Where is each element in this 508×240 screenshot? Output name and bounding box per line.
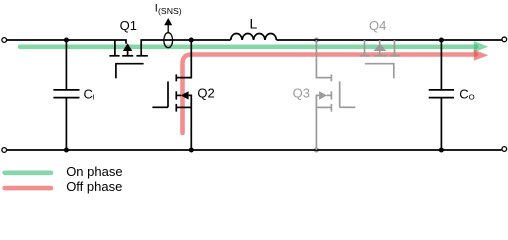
body diode of Q4 — [374, 43, 386, 51]
capacitor CO lead from output rail — [440, 40, 442, 89]
node GND3 junction (gray, bottom of Q3 branch) — [314, 148, 319, 153]
svg-text:C: C — [459, 86, 468, 101]
transistor Q3 (gray, unused in buck mode) — [316, 40, 355, 150]
wire: CI to ground — [65, 99, 67, 151]
wire: CO to ground — [440, 99, 442, 151]
node VOUT junction — [439, 38, 444, 43]
input ground terminal — [2, 148, 7, 153]
svg-text:On phase: On phase — [66, 164, 122, 179]
svg-text:L: L — [250, 15, 258, 31]
node VIN-CI junction — [64, 38, 69, 43]
output ground terminal — [502, 147, 507, 152]
legend off-phase swatch — [5, 186, 51, 191]
svg-text:Q1: Q1 — [120, 18, 137, 33]
transistor Q4 (gray, unused in buck mode) — [360, 40, 401, 78]
node GND CI junction — [64, 148, 69, 153]
wire: input terminal to Q1 — [7, 40, 126, 44]
on phase current path (green highlight) — [20, 41, 488, 52]
inductor L — [231, 33, 277, 40]
svg-text:O: O — [469, 92, 475, 101]
node SW3 junction (gray, top of Q3 branch) — [314, 38, 319, 43]
wire: Q1 drain lead to inductor — [141, 40, 231, 55]
node GND CO junction — [439, 148, 444, 153]
svg-text:Off phase: Off phase — [66, 179, 122, 194]
svg-text:Q2: Q2 — [197, 85, 214, 100]
body diode of Q2 — [181, 91, 189, 99]
node GND Q2 junction — [189, 148, 194, 153]
svg-text:Q4: Q4 — [369, 18, 386, 33]
I(SNS) arrow — [167, 25, 169, 33]
legend on-phase swatch — [5, 171, 51, 176]
svg-text:I: I — [92, 92, 94, 101]
capacitor CI lead from input rail — [65, 40, 67, 89]
svg-text:Q3: Q3 — [293, 86, 310, 101]
capacitor CI — [53, 90, 79, 98]
body diode of Q3 — [319, 91, 327, 99]
output terminal VOUT — [502, 37, 507, 42]
transistor Q2 (low-side buck FET) — [152, 40, 191, 150]
input terminal VIN — [2, 38, 7, 43]
body diode of Q1 — [123, 43, 132, 51]
wire: ground rail — [7, 149, 502, 151]
wire: inductor to output terminal — [276, 39, 501, 41]
svg-text:(SNS): (SNS) — [158, 6, 182, 16]
transistor Q1 (high-side buck FET) — [109, 40, 148, 78]
current sense ellipse I(SNS) — [164, 33, 173, 48]
node SW junction (switch node) — [189, 38, 194, 43]
off phase current path (red highlight) — [183, 50, 489, 133]
capacitor CO — [429, 90, 454, 98]
